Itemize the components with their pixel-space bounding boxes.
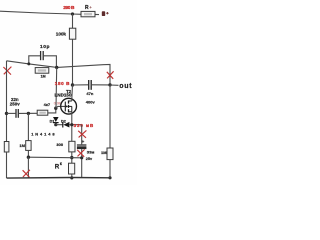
node source junction bbox=[70, 123, 73, 126]
svg-text:1М: 1М bbox=[101, 150, 107, 155]
wire top rail to terminal bbox=[95, 13, 100, 15]
wire 1M bias vertical bbox=[27, 113, 29, 140]
node gate junction dot bbox=[55, 66, 58, 69]
svg-text:400v: 400v bbox=[86, 100, 96, 105]
resistor R+ (top right, horizontal) bbox=[81, 11, 95, 16]
wire gate line from top junction down bbox=[55, 67, 58, 108]
svg-text:out: out bbox=[119, 83, 132, 90]
node clamp left junction bbox=[54, 123, 57, 126]
probe mark X1 (red, on left vertical) bbox=[3, 67, 11, 75]
wire top supply rail bbox=[0, 11, 82, 14]
wire drain to output cap bbox=[73, 84, 89, 86]
resistor Rk (vertical) bbox=[69, 163, 75, 174]
node 10p left junction bbox=[27, 62, 30, 65]
wire gate lead into transistor bbox=[56, 106, 66, 108]
svg-text:180 В: 180 В bbox=[55, 81, 70, 86]
wire clamp left bbox=[56, 124, 63, 126]
resistor 1M (vertical) bbox=[26, 141, 31, 151]
capacitor C bypass bottom plate (filled) bbox=[77, 146, 87, 149]
svg-text:+: + bbox=[89, 5, 92, 10]
svg-text:D2: D2 bbox=[61, 119, 66, 123]
svg-text:1М: 1М bbox=[19, 143, 25, 148]
node gate dot bbox=[54, 107, 57, 110]
capacitor 22n plates bbox=[15, 109, 17, 118]
svg-text:100k: 100k bbox=[56, 31, 67, 36]
diode D2 (horizontal, pointing left) bbox=[62, 122, 64, 128]
svg-text:4к7: 4к7 bbox=[44, 102, 51, 107]
wire main vertical drain branch bbox=[72, 14, 74, 28]
wire feedback top (sloping) bbox=[7, 61, 111, 85]
probe mark X3 (red, above bypass cap) bbox=[78, 130, 86, 137]
transistor arrow bbox=[66, 105, 69, 107]
node drain 180V junction bbox=[71, 83, 74, 86]
wire source lead bbox=[71, 112, 73, 142]
wire 22n row left bbox=[7, 112, 16, 114]
resistor 300 (vertical source resistor) bbox=[69, 141, 75, 152]
resistor R grid (horizontal, in feedback wire) bbox=[35, 68, 49, 74]
diode D1 (vertical, pointing down) bbox=[53, 117, 59, 122]
wire right vertical load bbox=[109, 85, 111, 148]
node out junction bbox=[108, 83, 111, 86]
svg-text:330 мВ: 330 мВ bbox=[74, 123, 94, 128]
svg-text:1М: 1М bbox=[41, 74, 46, 78]
wire output cap to out node bbox=[92, 84, 110, 86]
wire 1M to tap row bbox=[27, 150, 29, 157]
probe mark X4 (red, below bypass cap) bbox=[77, 149, 84, 156]
node 22n left junction bbox=[5, 112, 8, 115]
wire 4k7 to gate bbox=[48, 108, 56, 113]
wire 100k to drain node bbox=[72, 39, 74, 85]
svg-text:10p: 10p bbox=[40, 44, 49, 50]
wire clamp right bbox=[69, 124, 81, 126]
wire drain lead bbox=[71, 85, 74, 101]
wire tap row bbox=[28, 156, 81, 159]
wire D1 cathode stub bbox=[55, 123, 57, 125]
ground rail bbox=[7, 177, 111, 180]
node 1M tap junction bbox=[27, 156, 30, 159]
node 1M top junction bbox=[27, 112, 30, 115]
resistor load (vertical right) bbox=[107, 148, 113, 160]
svg-text:1N4148: 1N4148 bbox=[31, 131, 55, 136]
resistor 4k7 (horizontal) bbox=[37, 110, 48, 115]
capacitor 10p plates bbox=[40, 51, 42, 60]
wire Rk to ground rail bbox=[71, 174, 73, 178]
resistor lower-left (vertical) bbox=[4, 142, 9, 153]
wire tap to ground bbox=[27, 157, 29, 178]
svg-text:ЗЗм: ЗЗм bbox=[87, 151, 95, 155]
wire lower-left resistor to ground rail bbox=[6, 152, 8, 178]
probe mark X5 (red) bbox=[23, 170, 30, 178]
node 290V junction dot bbox=[71, 12, 74, 15]
wire 22n to 1M junction bbox=[19, 112, 37, 114]
terminal B+ (dark red) bbox=[102, 11, 105, 16]
node cathode tap junction bbox=[70, 156, 73, 159]
wire out stub bbox=[110, 84, 119, 86]
capacitor 10p branch left lead bbox=[29, 56, 40, 64]
capacitor 10p branch right lead bbox=[44, 56, 57, 68]
transistor T2 LND150 (MOSFET in circle) bbox=[61, 98, 77, 114]
svg-text:25v: 25v bbox=[86, 157, 93, 161]
svg-text:LND150: LND150 bbox=[55, 93, 72, 98]
capacitor C bypass top plate bbox=[77, 144, 87, 146]
capacitor C bypass polarity + bbox=[82, 140, 85, 143]
node Rk ground junction bbox=[70, 176, 73, 179]
svg-text:300: 300 bbox=[56, 142, 63, 147]
svg-text:47n: 47n bbox=[86, 91, 93, 96]
wire source resistor to tap bbox=[71, 152, 73, 163]
svg-text:250v: 250v bbox=[10, 102, 20, 107]
wire bypass cap branch lower bbox=[81, 149, 83, 178]
resistor 100k (vertical) bbox=[69, 28, 75, 39]
wire bypass cap branch upper bbox=[81, 125, 83, 145]
wire left vertical (feedback down) bbox=[6, 61, 8, 142]
svg-text:290 В: 290 В bbox=[63, 5, 75, 11]
capacitor 47n plates bbox=[88, 80, 90, 90]
node tap to bypass branch bbox=[80, 156, 83, 159]
wire load resistor to ground rail bbox=[109, 160, 111, 178]
probe mark X2 (red, on right vertical) bbox=[107, 71, 114, 79]
node ground rail right corner bbox=[108, 176, 111, 179]
